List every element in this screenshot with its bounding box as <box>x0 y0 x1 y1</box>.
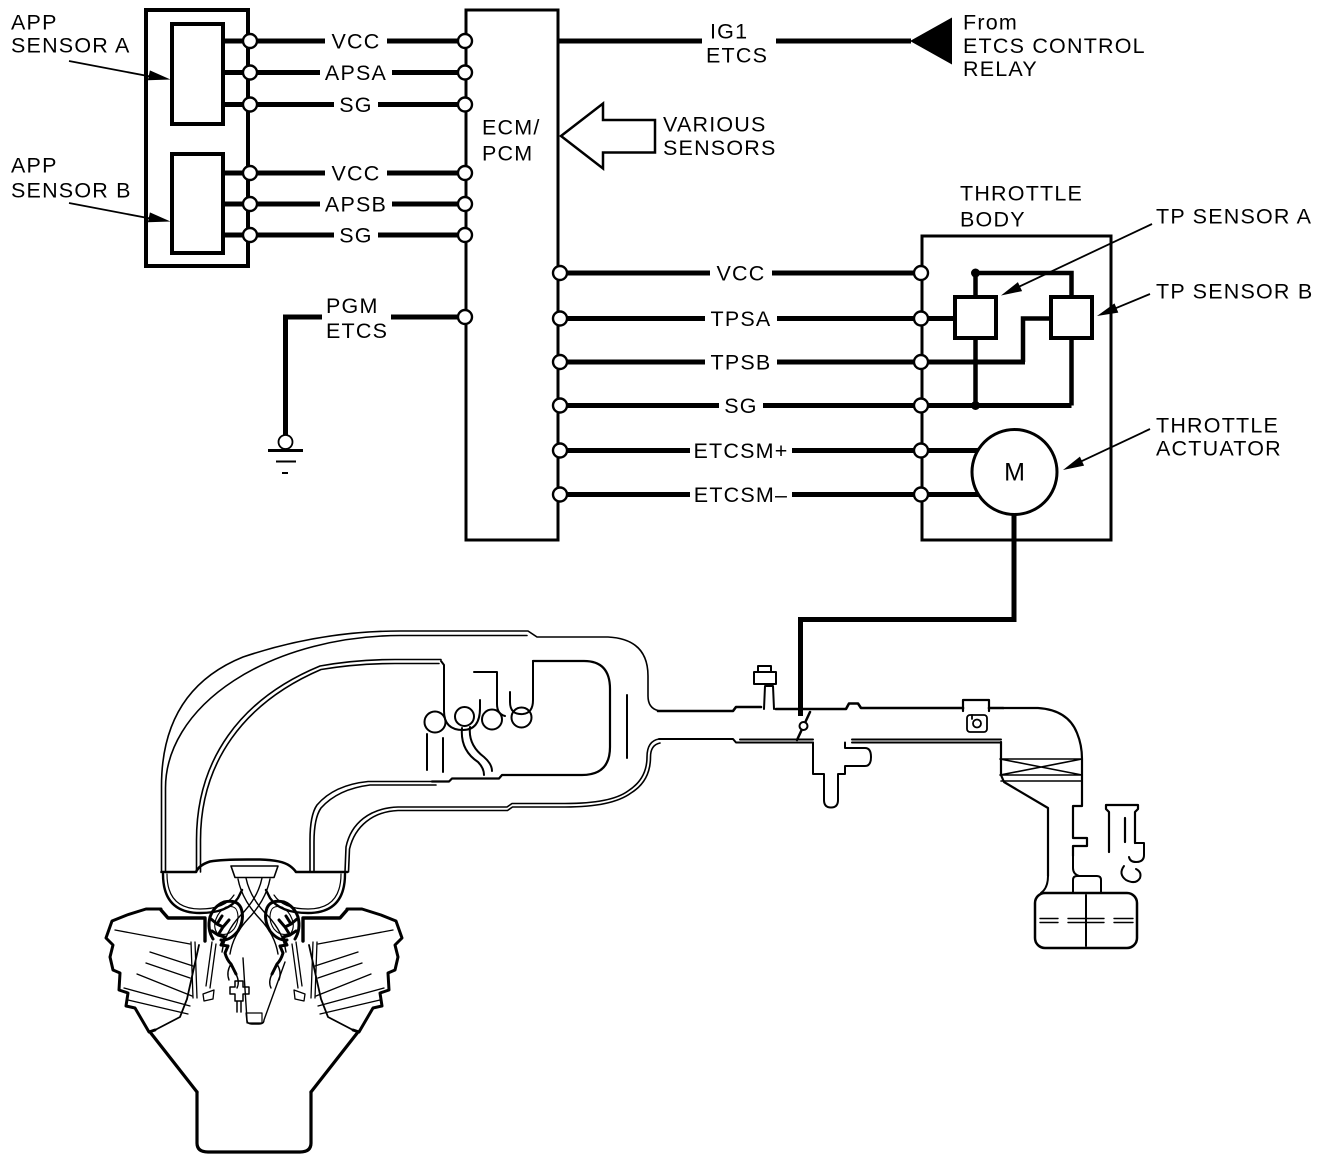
injector line right <box>315 930 393 978</box>
throttle valve plate <box>797 712 810 740</box>
duct bottom outer wall (outer line) <box>345 739 659 872</box>
net label ETCSM- <box>690 483 792 507</box>
junction VCC node <box>971 269 980 278</box>
junction SG node <box>971 401 980 410</box>
arrow from ETCS control relay <box>910 18 952 65</box>
tree tail right <box>270 964 280 988</box>
vacuum cap fitting <box>754 666 776 709</box>
svg-text:SENSOR A: SENSOR A <box>11 34 131 58</box>
oil pan <box>197 1092 311 1152</box>
port circle 2 <box>455 707 474 726</box>
plenum body left lobe inner <box>167 874 234 909</box>
wire SG (APP A) <box>225 102 465 107</box>
svg-text:APP: APP <box>11 154 58 178</box>
wire VCC (APP B) <box>225 171 465 176</box>
plenum body left lobe <box>163 874 242 913</box>
air cleaner X-band <box>1000 759 1082 781</box>
leader arrow APP sensor A <box>69 61 171 80</box>
terminal circles ECM left <box>243 34 928 502</box>
runner curl left <box>209 901 242 940</box>
breather S-hook <box>1121 866 1140 882</box>
breather pipe hook <box>1129 843 1144 862</box>
net label ETCSM+ <box>690 439 792 463</box>
rocker lines left <box>124 974 192 1014</box>
throttle body box <box>922 236 1111 540</box>
svg-text:APSB: APSB <box>325 193 387 217</box>
throttle actuator motor M1 <box>972 430 1057 515</box>
slot line in duct right end <box>626 695 628 758</box>
valve cover right outline <box>347 909 402 1032</box>
wire IG1 ETCS <box>559 39 911 44</box>
net label TPSA <box>705 307 777 331</box>
wire TPSB <box>560 360 1025 365</box>
port pedestal under circle 1 <box>427 734 443 772</box>
inner duct upper wall (inner line) <box>201 664 440 873</box>
net label SG (B) <box>334 224 378 248</box>
intake valve tree right <box>272 916 297 974</box>
resonator top box <box>1073 876 1101 893</box>
valve stem left <box>203 942 216 1001</box>
svg-text:IG1: IG1 <box>710 20 748 44</box>
plenum plate <box>231 866 278 878</box>
port circle 1 <box>425 712 446 733</box>
inner duct upper wall (outer line) <box>197 660 442 873</box>
spark tube right <box>311 942 317 998</box>
wire TPSA <box>560 316 953 321</box>
breather pipe <box>1106 805 1138 852</box>
clamp block on tube <box>963 700 989 711</box>
port S-curve drops <box>462 727 492 775</box>
intake duct outer wall (outer line) <box>162 631 659 872</box>
intake duct outer wall (inner line) <box>166 636 528 873</box>
wire VCC (throttle) <box>560 271 921 276</box>
valve cover left outline <box>106 909 161 1032</box>
throttle tube top edge <box>658 704 1003 712</box>
port hook around circle 4 <box>510 661 533 714</box>
inner duct lower wall (outer line) <box>310 782 432 873</box>
svg-text:ETCSM–: ETCSM– <box>694 483 788 507</box>
svg-text:PGM: PGM <box>326 294 379 318</box>
duct into resonator <box>1041 856 1079 893</box>
tree tail left <box>228 964 238 988</box>
svg-text:ACTUATOR: ACTUATOR <box>1156 437 1282 461</box>
svg-text:ETCS CONTROL: ETCS CONTROL <box>963 34 1146 58</box>
runner band crossing left pair <box>222 878 270 954</box>
resonator center line <box>1085 895 1087 946</box>
svg-text:TPSB: TPSB <box>711 351 772 375</box>
svg-text:RELAY: RELAY <box>963 57 1038 81</box>
ECM/PCM box U1 <box>466 10 558 540</box>
leader arrow APP sensor B <box>69 203 171 222</box>
leader arrow TP sensor A <box>1001 224 1152 296</box>
svg-text:ECM/: ECM/ <box>482 116 541 140</box>
svg-text:VCC: VCC <box>332 162 381 186</box>
net label VCC (throttle) <box>710 262 772 286</box>
wire ground drop <box>283 317 288 435</box>
svg-text:TPSA: TPSA <box>711 307 772 331</box>
connector APP sensor assembly outer box <box>146 10 248 266</box>
intake valve tree left <box>211 916 236 974</box>
svg-text:VCC: VCC <box>717 262 766 286</box>
svg-text:APSA: APSA <box>325 61 387 85</box>
funnel box <box>246 1013 262 1023</box>
svg-text:SG: SG <box>339 93 372 117</box>
throttle tube bottom edge <box>659 739 1001 743</box>
net label IG1 ETCS <box>702 19 776 69</box>
port circle 3 <box>482 710 502 730</box>
wire ETCSM- <box>560 492 990 497</box>
wire VCC to TP sensor A <box>973 273 978 297</box>
port cup around circle 2 <box>441 661 480 730</box>
net label VCC (B) <box>325 162 387 186</box>
net label SG (A) <box>334 93 378 117</box>
runner curl right <box>266 901 299 940</box>
svg-text:TP SENSOR B: TP SENSOR B <box>1156 280 1313 304</box>
net label APSB <box>320 193 392 217</box>
head deck edge left <box>161 910 205 941</box>
svg-text:APP: APP <box>11 11 58 35</box>
wire VCC (APP A) <box>225 39 465 44</box>
net label SG (throttle) <box>719 394 763 418</box>
air duct bend inner wall <box>1001 742 1048 876</box>
ground G1 <box>268 435 303 473</box>
svg-text:VCC: VCC <box>332 30 381 54</box>
drain pocket under tube <box>813 743 871 808</box>
leader arrow TP sensor B <box>1097 294 1150 316</box>
resonator box <box>1035 893 1137 948</box>
rocker lines right <box>316 974 384 1014</box>
throttle valve shaft circle <box>800 722 808 730</box>
valve cover right inner edge <box>309 945 353 1030</box>
wire actuator to throttle body drawing <box>801 515 1015 717</box>
spark tube left <box>191 942 197 998</box>
TP sensor A box <box>955 297 996 338</box>
svg-text:THROTTLE: THROTTLE <box>960 182 1083 206</box>
plenum body right lobe <box>266 874 345 913</box>
plenum body right lobe inner <box>274 874 341 909</box>
runner curl left inner <box>215 907 238 935</box>
plenum top edge with dome <box>162 860 348 873</box>
center bolt cross <box>230 981 249 1012</box>
duct bottom outer wall (inner line) <box>349 743 661 872</box>
surge tank chamber right end <box>432 661 610 782</box>
svg-text:ETCSM+: ETCSM+ <box>693 439 788 463</box>
air duct bend right outer <box>1003 708 1087 856</box>
svg-text:BODY: BODY <box>960 208 1026 232</box>
injector line left <box>115 930 193 978</box>
svg-text:SG: SG <box>724 394 757 418</box>
runner curl right inner <box>270 907 293 935</box>
inner duct lower wall (inner line) <box>314 785 436 872</box>
sensor icon on tube <box>967 715 987 732</box>
svg-text:TP SENSOR A: TP SENSOR A <box>1156 205 1312 229</box>
net label VCC (A) <box>325 30 387 54</box>
svg-text:M: M <box>1004 459 1025 487</box>
APP sensor A inner box <box>172 24 223 124</box>
svg-text:SG: SG <box>339 224 372 248</box>
wire APSB <box>225 202 465 207</box>
engine block left slant <box>150 1032 197 1092</box>
svg-text:SENSOR B: SENSOR B <box>11 179 132 203</box>
leader arrow throttle actuator <box>1063 429 1150 470</box>
APP sensor B inner box <box>172 154 223 253</box>
engine block right slant <box>311 1032 358 1092</box>
svg-text:ETCS: ETCS <box>326 319 388 343</box>
valve stem right <box>292 942 305 1001</box>
arrow VARIOUS SENSORS <box>561 104 655 169</box>
wire TP sensor A to SG <box>973 338 978 406</box>
svg-text:SENSORS: SENSORS <box>663 136 777 160</box>
wire VCC inside throttle body <box>976 273 1072 297</box>
runner band crossing right pair <box>238 878 286 954</box>
port circle 4 <box>512 708 532 728</box>
net label TPSB <box>705 351 777 375</box>
wire PGM ETCS <box>283 315 322 320</box>
wire SG (APP B) <box>225 233 465 238</box>
head deck edge right <box>303 910 347 941</box>
svg-text:VARIOUS: VARIOUS <box>663 113 767 137</box>
ILLUSTRATION <box>106 631 1144 1152</box>
valve cover left inner edge <box>155 945 199 1030</box>
svg-text:PCM: PCM <box>482 142 533 166</box>
svg-text:ETCS: ETCS <box>706 44 768 68</box>
wire APSA <box>225 70 465 75</box>
TP sensor B box <box>1051 297 1092 338</box>
wire TP sensor B to SG <box>1069 338 1074 406</box>
port ledge and wall to circle 3 <box>474 672 505 716</box>
wire ETCSM+ <box>560 448 990 453</box>
center funnel <box>243 958 285 1024</box>
net label APSA <box>320 61 392 85</box>
wire TPSB jog to TP sensor B <box>1023 319 1051 363</box>
svg-text:From: From <box>963 11 1018 35</box>
svg-text:THROTTLE: THROTTLE <box>1156 414 1279 438</box>
resonator slots <box>1040 919 1133 923</box>
wire SG (throttle) <box>560 403 1072 408</box>
